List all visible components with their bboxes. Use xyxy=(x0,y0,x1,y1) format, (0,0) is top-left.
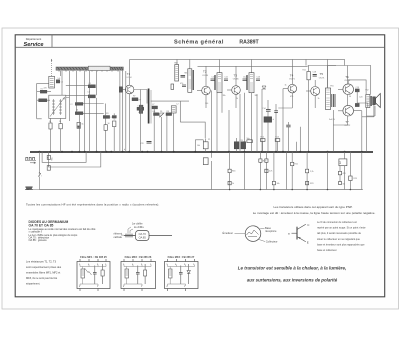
svg-text:3x4,5V: 3x4,5V xyxy=(329,119,336,121)
svg-text:OC71: OC71 xyxy=(319,78,325,80)
resistor R26 xyxy=(338,182,341,185)
filter MF3 internal wires xyxy=(168,265,195,287)
svg-text:OA 85 : gravure: OA 85 : gravure xyxy=(29,238,48,242)
filter MF1 internal wires xyxy=(80,265,106,287)
svg-text:R16: R16 xyxy=(232,171,235,173)
svg-text:470: 470 xyxy=(343,173,346,175)
transistor T6 xyxy=(338,66,354,101)
wire left edge xyxy=(29,152,43,190)
diodes germanium heading xyxy=(29,220,69,228)
filter MF2 cap xyxy=(136,266,140,285)
transistor T3 xyxy=(227,66,240,108)
svg-text:C4: C4 xyxy=(88,92,90,94)
resistor R5 vertical xyxy=(77,122,80,128)
svg-text:10: 10 xyxy=(108,123,110,125)
resistor R11 vertical xyxy=(307,66,310,152)
label T2 xyxy=(202,70,208,78)
capacitor C7 xyxy=(152,106,158,109)
bus junction dots xyxy=(38,151,362,153)
filter MF2 title xyxy=(125,255,152,259)
capacitor C18 xyxy=(313,75,317,77)
svg-text:T6: T6 xyxy=(345,75,349,79)
svg-text:1k: 1k xyxy=(49,121,51,123)
filter MF1 title xyxy=(80,255,107,259)
svg-text:aux surtensions, aux invers: aux surtensions, aux inversions de polar… xyxy=(247,277,338,282)
wire osc region xyxy=(130,90,206,152)
cathode label xyxy=(114,233,125,239)
page frame xyxy=(15,35,385,297)
svg-text:situer le collecteur en se: situer le collecteur en se rappelant que xyxy=(317,238,361,241)
svg-text:OC72: OC72 xyxy=(345,125,351,127)
svg-text:T3: T3 xyxy=(234,73,238,77)
collector wire paragraph xyxy=(317,221,366,252)
keyboard switch row xyxy=(25,157,36,163)
pnp note line1 xyxy=(273,205,352,209)
tuning gang CV1 xyxy=(49,95,66,118)
svg-text:base et collecteur.: base et collecteur. xyxy=(317,249,337,252)
svg-text:Filtre MF3 : FB 365 27: Filtre MF3 : FB 365 27 xyxy=(168,255,195,259)
label T3 xyxy=(233,73,239,80)
capacitor C2b xyxy=(75,112,83,115)
ground return bus xyxy=(39,189,362,191)
transistor T2 xyxy=(197,66,210,108)
svg-text:1k: 1k xyxy=(318,98,320,100)
svg-text:T1: T1 xyxy=(127,72,131,76)
electrolytic C22 xyxy=(241,142,246,149)
wire if bias xyxy=(195,89,300,152)
svg-text:C19: C19 xyxy=(356,87,359,89)
svg-text:150: 150 xyxy=(205,103,208,105)
coil L1 xyxy=(49,76,55,88)
svg-text:2,2k: 2,2k xyxy=(310,171,314,173)
svg-text:séparément.: séparément. xyxy=(26,282,40,286)
svg-text:1k: 1k xyxy=(285,85,287,87)
svg-text:Collecteur: Collecteur xyxy=(266,239,278,243)
resistor R6 vertical xyxy=(49,118,52,151)
filter MF1 pins xyxy=(80,259,106,291)
svg-text:220: 220 xyxy=(44,88,47,90)
svg-text:2k: 2k xyxy=(59,121,61,123)
svg-text:R21: R21 xyxy=(295,164,298,166)
svg-text:R23: R23 xyxy=(310,183,313,185)
svg-text:TR2: TR2 xyxy=(365,90,369,92)
wire left loop xyxy=(37,83,49,118)
transistor symbol xyxy=(292,223,311,244)
transistor case circle xyxy=(245,226,261,242)
band callouts xyxy=(128,223,144,234)
capacitor C11 xyxy=(224,79,228,81)
capacitor C12 xyxy=(243,79,247,81)
filter MF2 coil xyxy=(125,269,129,278)
tone control box xyxy=(203,158,208,165)
svg-text:5k: 5k xyxy=(82,124,84,126)
svg-text:2e chiffre: 2e chiffre xyxy=(134,226,144,229)
AGC feedback wire b xyxy=(49,152,101,167)
svg-text:C10: C10 xyxy=(212,77,215,79)
svg-text:T2: T2 xyxy=(203,70,207,74)
filter MF3 diode xyxy=(187,264,190,284)
filter MF1 coil xyxy=(81,268,92,278)
svg-text:10k: 10k xyxy=(277,183,280,185)
capacitor C6 xyxy=(137,107,144,110)
resistor R8 xyxy=(154,113,159,116)
switches position note xyxy=(26,202,159,206)
svg-text:E: E xyxy=(307,241,309,245)
svg-text:Toutes les commutations HF ont: Toutes les commutations HF ont été repré… xyxy=(26,202,159,206)
resistor R1 xyxy=(37,88,51,93)
capacitor C17 xyxy=(286,125,290,127)
svg-text:2k: 2k xyxy=(236,98,238,100)
capacitor C9 xyxy=(182,85,186,87)
label T7 xyxy=(345,120,351,127)
svg-text:OC71: OC71 xyxy=(289,79,295,81)
capacitor C1 xyxy=(56,80,64,84)
svg-text:OA 70 ET OA 85: OA 70 ET OA 85 xyxy=(29,224,54,228)
wire audio mid xyxy=(333,80,374,152)
svg-text:C7: C7 xyxy=(152,104,154,106)
filter MF1 cap xyxy=(93,266,97,285)
svg-text:39k: 39k xyxy=(223,95,226,97)
svg-text:R25: R25 xyxy=(354,178,357,180)
filter MF3 coil xyxy=(169,269,173,278)
svg-text:Département: Département xyxy=(26,37,42,41)
svg-text:Les transistors utilisés dans: Les transistors utilisés dans cet appare… xyxy=(273,205,352,209)
svg-text:50: 50 xyxy=(349,96,351,98)
resistor R4 vertical xyxy=(59,118,62,151)
svg-text:b: b xyxy=(124,149,125,151)
IF transformer MF1 xyxy=(188,69,193,93)
wire audio top xyxy=(328,66,371,95)
svg-text:repéré par un point rouge. Si: repéré par un point rouge. Si ce point n… xyxy=(317,227,366,230)
mixer coupling coil L3 xyxy=(175,63,179,82)
diode D2 xyxy=(262,86,266,89)
resistor R12 xyxy=(247,140,252,143)
resistor R6b vertical xyxy=(104,115,117,130)
filter MF1 thermistor xyxy=(101,264,104,284)
filter MF3 box xyxy=(165,262,199,289)
svg-text:OC72: OC72 xyxy=(345,80,351,82)
resistor R25 xyxy=(349,152,352,190)
svg-text:OA 70: OA 70 xyxy=(139,232,147,236)
svg-text:M3: M3 xyxy=(185,73,188,75)
label T4 xyxy=(289,73,295,80)
svg-text:R14: R14 xyxy=(275,137,278,139)
resistor R17 xyxy=(259,152,262,190)
svg-text:39k: 39k xyxy=(255,95,258,97)
department service box xyxy=(24,35,52,48)
IF transformer MF2 xyxy=(215,73,222,93)
svg-text:T7: T7 xyxy=(345,120,349,124)
resistor R20 xyxy=(272,152,275,190)
capacitor C3 xyxy=(88,83,95,88)
svg-text:sont respectivement prises des: sont respectivement prises des xyxy=(26,265,62,269)
resistor R22 xyxy=(306,152,309,190)
wire top band feeds xyxy=(61,71,115,152)
electrolytic C21 xyxy=(234,138,239,152)
svg-text:L2: L2 xyxy=(177,104,179,106)
label T1 xyxy=(126,72,132,79)
diode D1 xyxy=(160,113,164,117)
svg-text:Filtre MF2 : FB 365 26: Filtre MF2 : FB 365 26 xyxy=(125,255,152,259)
svg-text:Le montage est dit : émetteur: Le montage est dit : émetteur à la masse… xyxy=(253,211,376,215)
svg-text:OC44: OC44 xyxy=(126,77,132,79)
capacitor C2 xyxy=(70,103,83,106)
svg-text:R12: R12 xyxy=(261,137,264,139)
capacitor C5 xyxy=(119,87,122,92)
component value labels xyxy=(44,69,369,186)
diode marking note xyxy=(29,227,96,242)
antenna lead xyxy=(51,59,52,76)
filter MF2 internal wires xyxy=(124,265,151,287)
filter MF3 pins xyxy=(168,259,195,291)
resistor R23 xyxy=(306,181,309,184)
svg-text:Les résistances T1, T2, T3: Les résistances T1, T2, T3 xyxy=(26,260,57,264)
filter MF3 cap xyxy=(179,266,183,285)
header rule xyxy=(15,46,385,48)
svg-text:C21: C21 xyxy=(240,140,243,142)
ferrite rod antenna xyxy=(56,66,123,72)
output transformer TR2 xyxy=(366,95,372,108)
capacitor C15 xyxy=(274,111,278,113)
resistor R13 xyxy=(260,139,265,152)
chassis ground xyxy=(25,187,33,190)
wire gang to t1 xyxy=(66,71,97,152)
top bus wire xyxy=(198,65,337,68)
driver transformer TR1 xyxy=(325,88,335,109)
main HT bus xyxy=(30,151,373,153)
wire left bottom junctions xyxy=(229,189,351,191)
svg-text:Schéma général: Schéma général xyxy=(174,40,224,46)
svg-text:R3: R3 xyxy=(106,113,108,115)
svg-text:R19: R19 xyxy=(263,161,266,163)
svg-text:P1: P1 xyxy=(208,139,210,141)
diode leads xyxy=(124,235,172,237)
thermistor paragraph xyxy=(26,260,62,286)
resistor R21 xyxy=(291,152,294,190)
filter MF2 resistor xyxy=(144,264,147,284)
capacitor C20 xyxy=(355,103,359,106)
svg-text:ensembles filtres MF1, MF2 et: ensembles filtres MF1, MF2 et xyxy=(26,271,61,275)
pnp note line2 xyxy=(253,211,376,215)
filter MF2 box xyxy=(121,262,156,289)
svg-text:C18: C18 xyxy=(313,72,316,74)
svg-text:470: 470 xyxy=(290,96,293,98)
capacitor C10 xyxy=(211,79,215,81)
svg-text:82: 82 xyxy=(114,119,116,121)
switch contact components xyxy=(47,155,53,170)
svg-text:C12: C12 xyxy=(243,77,246,79)
svg-text:56: 56 xyxy=(343,184,345,186)
resistor R3 xyxy=(103,116,114,120)
oscillator trimmer xyxy=(139,105,144,113)
base label xyxy=(260,226,277,233)
svg-text:T4: T4 xyxy=(290,73,294,77)
svg-text:OC45: OC45 xyxy=(202,75,208,77)
svg-text:base et émetteur sont plus rap: base et émetteur sont plus rapprochés qu… xyxy=(317,243,365,246)
label T5 xyxy=(319,72,325,79)
band switch wires xyxy=(120,71,126,152)
svg-text:TR1: TR1 xyxy=(330,86,334,88)
svg-text:OA 85: OA 85 xyxy=(139,236,147,240)
collector label xyxy=(258,239,278,243)
capacitor C13 xyxy=(256,79,260,81)
rf ladder rungs xyxy=(66,71,104,121)
transistor T4 xyxy=(283,66,297,108)
capacitor C19 xyxy=(355,89,359,92)
resistor R2 xyxy=(37,99,50,102)
svg-text:C13: C13 xyxy=(257,77,260,79)
resistor R15 below bus xyxy=(228,152,231,190)
resistor R14 xyxy=(275,139,280,152)
color bands xyxy=(126,234,132,238)
transistor T5 xyxy=(306,80,320,108)
resistor R19 xyxy=(265,169,268,172)
svg-text:56: 56 xyxy=(76,110,78,112)
title schema general xyxy=(174,40,224,46)
capacitor C8 xyxy=(181,75,186,77)
label T6 xyxy=(345,75,351,82)
wire speaker return xyxy=(367,106,376,116)
svg-text:R9: R9 xyxy=(167,111,169,113)
svg-text:cathode: cathode xyxy=(114,236,123,239)
resistor R24 xyxy=(338,166,341,182)
svg-text:Filtre MF1 : FB 365 25: Filtre MF1 : FB 365 25 xyxy=(80,255,107,259)
svg-text:470: 470 xyxy=(180,83,183,85)
filter MF1 box xyxy=(77,262,110,289)
oscillator shield bar xyxy=(149,89,151,124)
svg-text:10k: 10k xyxy=(197,145,200,147)
volume potentiometer xyxy=(203,139,208,152)
resistor R7 xyxy=(132,98,142,102)
svg-text:Le transistor est sensible: Le transistor est sensible à la chaleur,… xyxy=(238,265,347,270)
svg-text:C20: C20 xyxy=(359,97,362,99)
svg-text:R7: R7 xyxy=(133,96,135,98)
capacitor C4 xyxy=(88,95,95,98)
symbol label a xyxy=(288,232,290,236)
svg-text:tait plus, il serait nécessair: tait plus, il serait nécessaire possible… xyxy=(317,232,362,235)
warning line2 xyxy=(247,277,338,282)
svg-text:Service: Service xyxy=(24,42,44,48)
resistor R9 xyxy=(166,113,172,116)
IF transformer MF3 xyxy=(247,73,254,93)
transistor T7 xyxy=(338,100,354,125)
top supply rail xyxy=(130,59,345,88)
svg-text:MF3, ils ne sont pas fournis: MF3, ils ne sont pas fournis xyxy=(26,276,58,280)
AGC feedback wire a xyxy=(42,152,86,163)
svg-text:6,8: 6,8 xyxy=(153,111,156,113)
loudspeaker xyxy=(373,94,381,108)
oscillator coil L2 xyxy=(171,106,176,113)
capacitor C23 xyxy=(141,142,152,145)
svg-text:R11: R11 xyxy=(303,70,306,72)
svg-text:C6: C6 xyxy=(138,105,140,107)
warning line1 xyxy=(238,265,347,270)
title RA389T xyxy=(239,40,259,46)
svg-text:OC45: OC45 xyxy=(233,79,239,81)
on-off switch box xyxy=(339,159,347,166)
svg-text:1k: 1k xyxy=(232,183,234,185)
resistor R18 xyxy=(265,152,268,190)
svg-text:Le fil de connexion du collect: Le fil de connexion du collecteur est xyxy=(317,221,357,224)
diode body OA70 xyxy=(136,231,150,241)
capacitor C14 xyxy=(262,108,271,111)
bus to ground drops xyxy=(212,152,287,190)
svg-text:T5: T5 xyxy=(320,72,324,76)
svg-text:D1: D1 xyxy=(160,111,162,113)
svg-text:C11: C11 xyxy=(225,77,228,79)
filter MF3 title xyxy=(168,255,195,259)
filter MF2 pins xyxy=(124,259,151,291)
wires below bus right xyxy=(320,152,362,190)
svg-text:RA389T: RA389T xyxy=(239,40,259,46)
svg-text:4,7k: 4,7k xyxy=(269,171,273,173)
electrolytic C16 xyxy=(264,117,275,122)
transistor T1 xyxy=(121,78,134,100)
resistor R10 xyxy=(171,84,174,89)
emitter lead label xyxy=(223,230,246,235)
svg-text:réceptrice: réceptrice xyxy=(265,229,277,233)
resistor R16 xyxy=(228,181,231,184)
svg-text:5,6: 5,6 xyxy=(58,78,61,80)
